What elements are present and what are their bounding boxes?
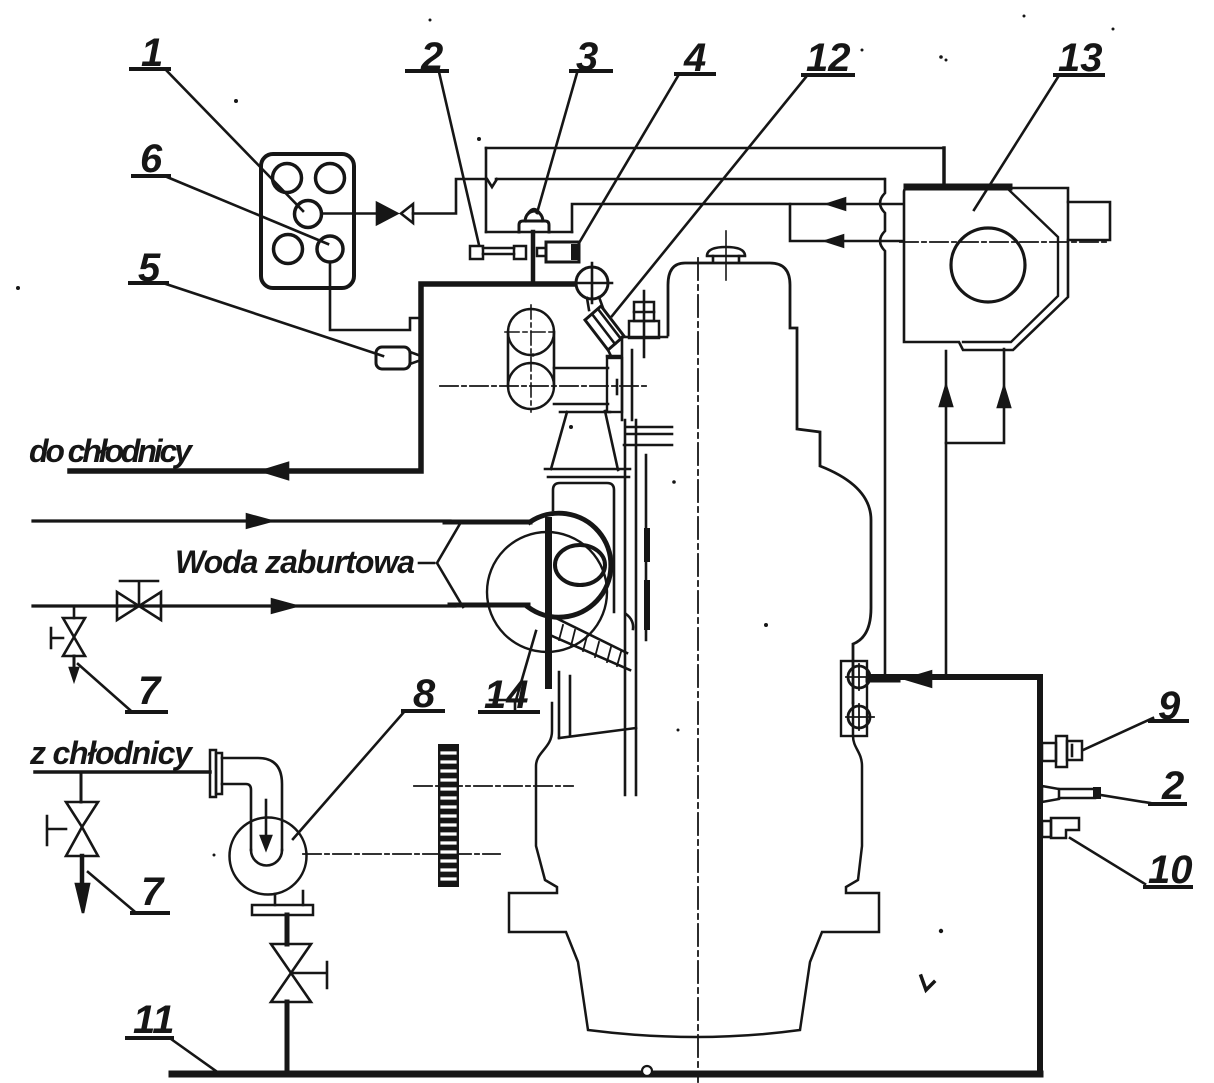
- svg-text:2: 2: [1161, 764, 1184, 808]
- svg-text:Woda zaburtowa: Woda zaburtowa: [175, 544, 415, 580]
- svg-text:do chłodnicy: do chłodnicy: [29, 433, 194, 469]
- svg-text:z chłodnicy: z chłodnicy: [29, 735, 194, 771]
- svg-text:10: 10: [1148, 848, 1193, 892]
- svg-text:8: 8: [413, 672, 436, 716]
- svg-text:4: 4: [683, 36, 706, 80]
- svg-text:1: 1: [141, 31, 163, 75]
- svg-text:9: 9: [1158, 684, 1181, 728]
- svg-text:14: 14: [484, 673, 529, 717]
- svg-text:11: 11: [133, 998, 175, 1042]
- svg-text:7: 7: [141, 870, 165, 914]
- svg-text:2: 2: [420, 35, 443, 79]
- svg-text:3: 3: [576, 35, 598, 79]
- svg-text:6: 6: [140, 137, 163, 181]
- svg-text:13: 13: [1058, 36, 1103, 80]
- svg-text:5: 5: [138, 246, 161, 290]
- svg-text:12: 12: [806, 36, 851, 80]
- svg-text:7: 7: [138, 669, 162, 713]
